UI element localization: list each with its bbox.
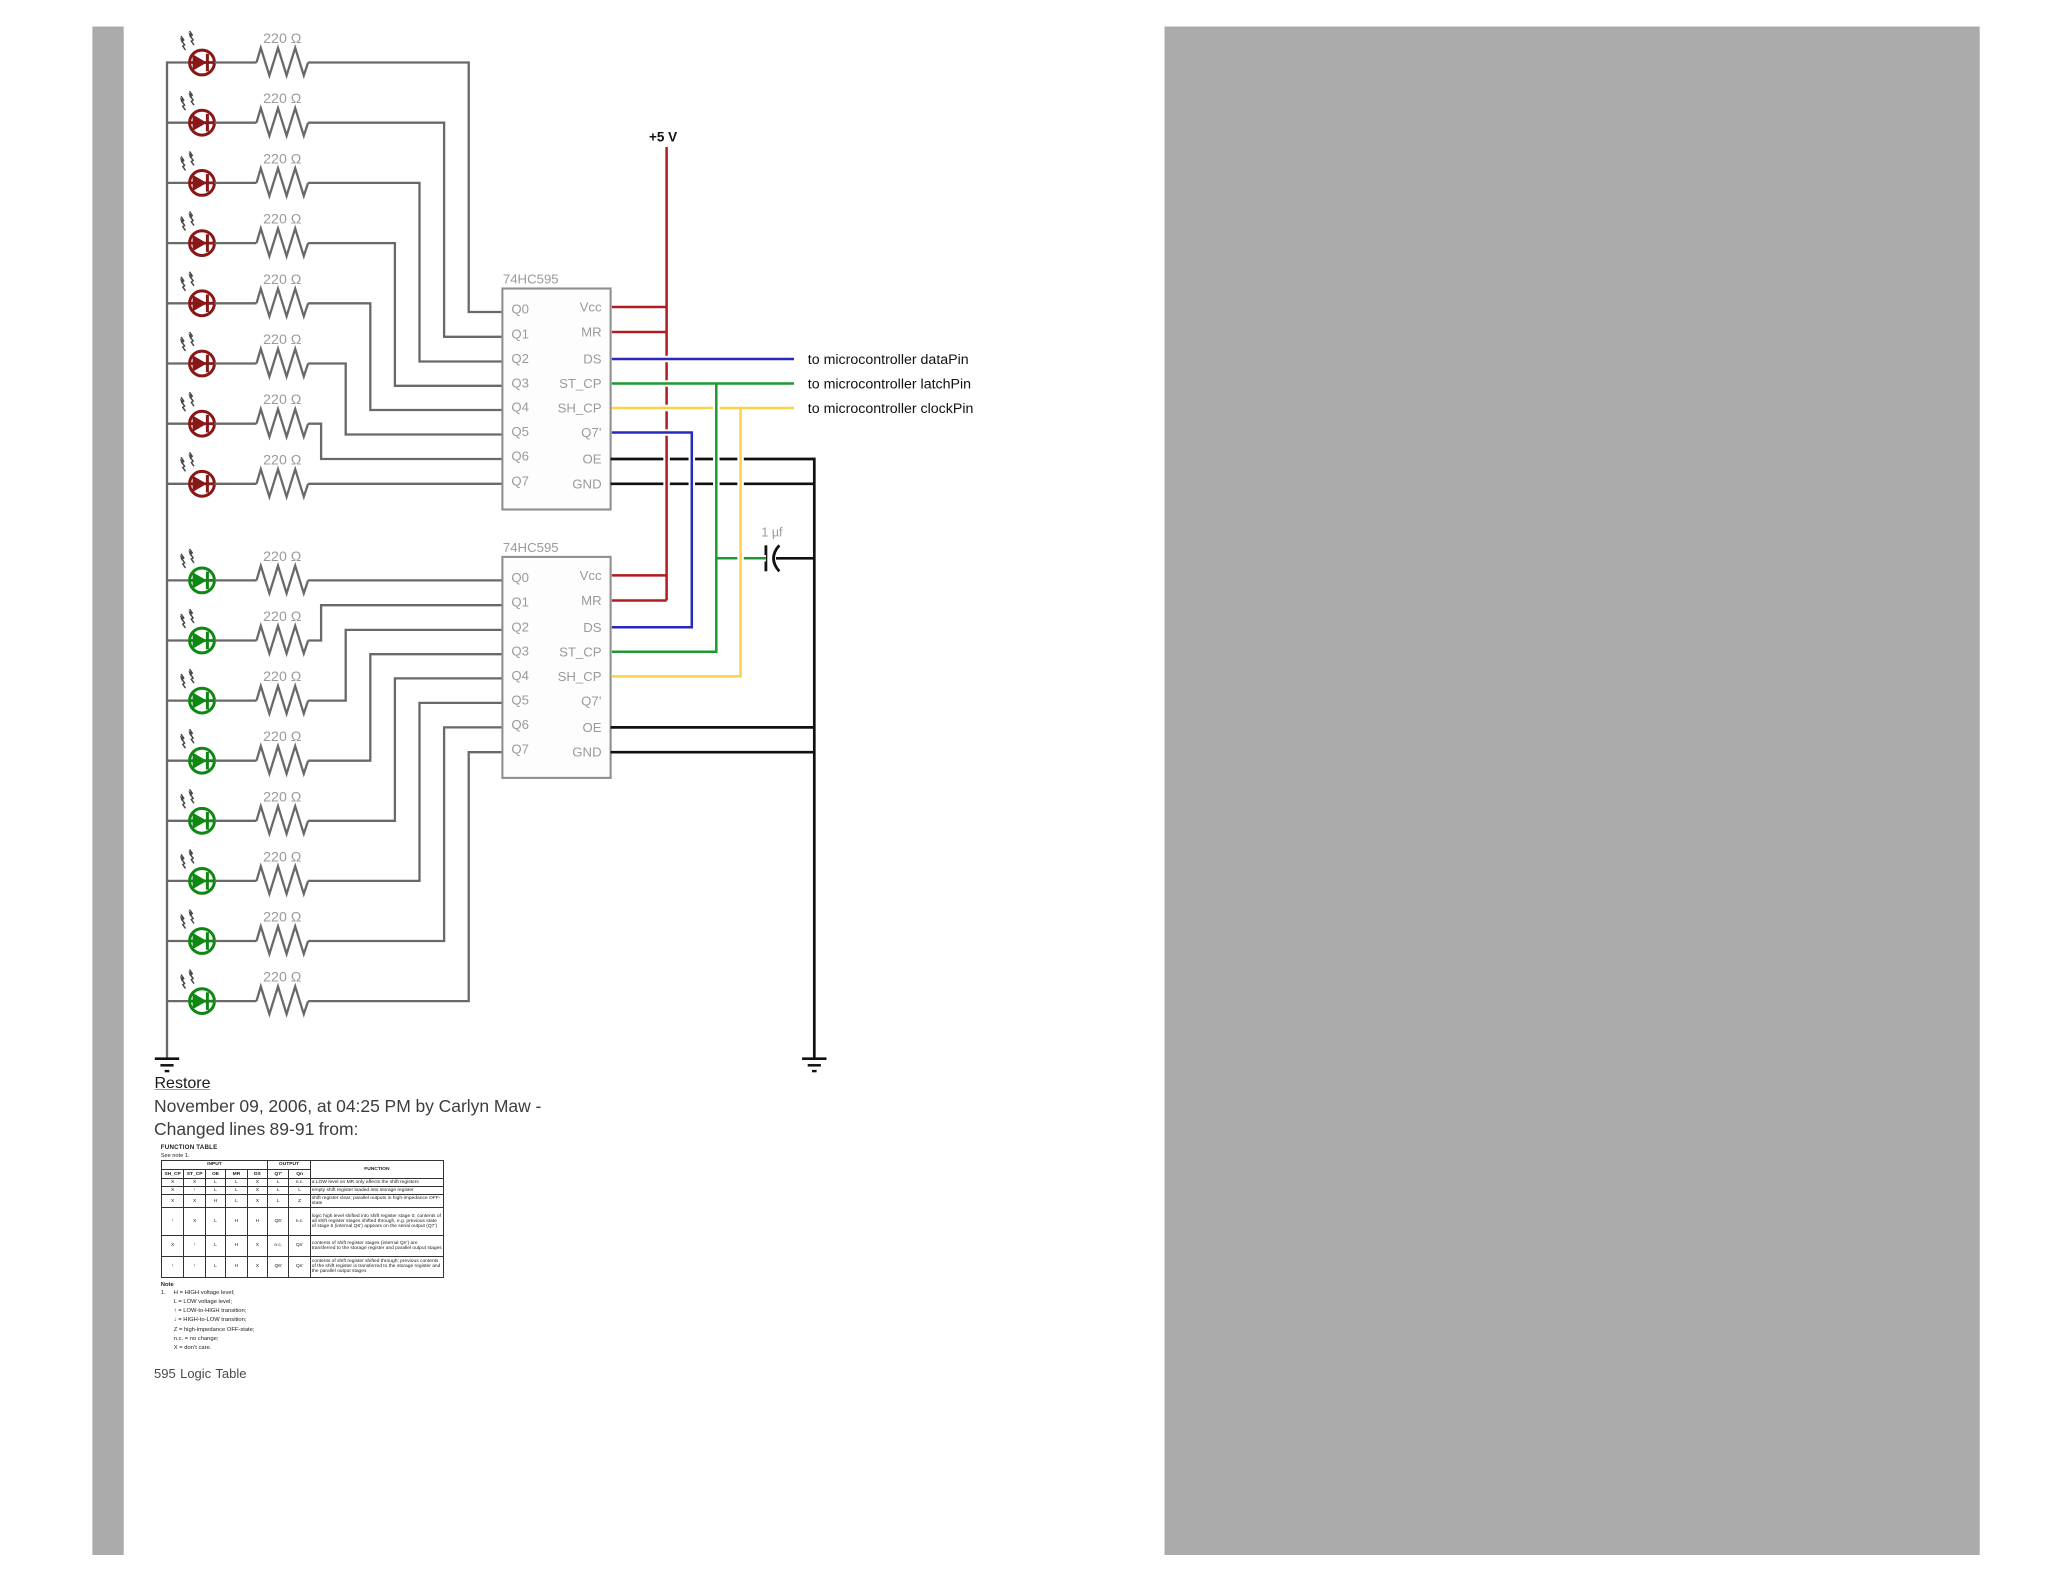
svg-text:220 Ω: 220 Ω	[263, 609, 301, 625]
resistor R12	[257, 746, 309, 774]
LED D9 (green)	[180, 549, 215, 593]
svg-text:220 Ω: 220 Ω	[263, 910, 301, 926]
svg-text:GND: GND	[572, 745, 601, 760]
svg-text:Q0: Q0	[511, 302, 529, 317]
svg-text:Q5: Q5	[511, 424, 529, 439]
wire: R2 to U1 Q1	[308, 123, 502, 337]
svg-text:Q2: Q2	[511, 619, 529, 634]
wire: LED D3 to resistor R3	[214, 182, 256, 184]
LED D3 (red)	[180, 151, 215, 195]
LED D13 (green)	[180, 789, 215, 833]
resistor R14	[257, 866, 309, 894]
resistor R4	[257, 229, 309, 257]
wire: LED D14 to resistor R14	[214, 880, 256, 882]
link: Restore	[155, 1075, 211, 1093]
wire: rail to LED D9	[167, 579, 190, 581]
resistor R8	[257, 469, 309, 497]
svg-text:220 Ω: 220 Ω	[263, 332, 301, 348]
wire: rail to LED D2	[167, 122, 190, 124]
svg-text:Q2: Q2	[511, 351, 529, 366]
resistor R1	[257, 48, 309, 76]
svg-text:Q6: Q6	[511, 717, 529, 732]
wire: R13 to U2 Q4	[308, 678, 502, 820]
resistor R15	[257, 926, 309, 954]
svg-text:220 Ω: 220 Ω	[263, 849, 301, 865]
wire: R3 to U1 Q2	[308, 183, 502, 362]
wire: R15 to U2 Q6	[308, 727, 502, 941]
wire: rail to LED D10	[167, 639, 190, 641]
svg-text:MR: MR	[581, 593, 602, 608]
resistor R9	[257, 566, 309, 594]
wire: R10 to U2 Q1	[308, 605, 502, 640]
wire: rail to LED D7	[167, 423, 190, 425]
wire: ground rail (vertical)	[813, 458, 816, 1058]
wire: rail to LED D13	[167, 820, 190, 822]
svg-text:Q7’: Q7’	[581, 425, 602, 440]
LED D15 (green)	[180, 910, 215, 954]
LED D11 (green)	[180, 669, 215, 713]
wire: C1 to ground rail (black)	[776, 557, 814, 560]
LED D8 (red)	[180, 452, 215, 496]
svg-text:Q1: Q1	[511, 595, 529, 610]
wire: LED D13 to resistor R13	[214, 820, 256, 822]
svg-text:Q7’: Q7’	[581, 694, 602, 709]
svg-text:to microcontroller clockPin: to microcontroller clockPin	[808, 401, 974, 417]
wire: LED D4 to resistor R4	[214, 242, 256, 244]
svg-text:ST_CP: ST_CP	[559, 644, 602, 659]
wire: rail to LED D3	[167, 182, 190, 184]
wire: R11 to U2 Q2	[308, 630, 502, 701]
svg-text:Q3: Q3	[511, 644, 529, 659]
IC U2 74HC595 (shift register)	[502, 540, 610, 778]
LED D10 (green)	[180, 609, 215, 653]
resistor R10	[257, 626, 309, 654]
resistor R2	[257, 108, 309, 136]
wire: LED D12 to resistor R12	[214, 760, 256, 762]
svg-text:220 Ω: 220 Ω	[263, 212, 301, 228]
svg-text:to microcontroller latchPin: to microcontroller latchPin	[808, 377, 971, 393]
svg-text:DS: DS	[583, 620, 602, 635]
wire: rail to LED D5	[167, 302, 190, 304]
text: edit byline	[154, 1096, 541, 1117]
wire: LED D16 to resistor R16	[214, 1000, 256, 1002]
wire: rail to LED D14	[167, 880, 190, 882]
caption: 595 Logic Table	[154, 1366, 246, 1381]
LED D6 (red)	[180, 332, 215, 376]
ground (IC rail)	[802, 1059, 826, 1071]
svg-text:220 Ω: 220 Ω	[263, 31, 301, 47]
wire: U1 SH_CP to microcontroller clockPin (yellow)	[612, 405, 794, 412]
resistor R6	[257, 349, 309, 377]
wire: R5 to U1 Q4	[308, 303, 502, 410]
wire: U1 Q7' to U2 DS (blue cascade)	[612, 433, 692, 628]
svg-text:Q4: Q4	[511, 668, 529, 683]
svg-text:to microcontroller dataPin: to microcontroller dataPin	[808, 352, 969, 368]
wire: U1 OE to ground rail	[611, 458, 815, 461]
wire: LED D2 to resistor R2	[214, 122, 256, 124]
wire: R7 to U1 Q6	[308, 424, 502, 459]
svg-text:+5 V: +5 V	[649, 130, 677, 145]
svg-text:220 Ω: 220 Ω	[263, 392, 301, 408]
svg-text:MR: MR	[581, 325, 602, 340]
LED D1 (red)	[180, 31, 215, 75]
LED D12 (green)	[180, 729, 215, 773]
wire: R14 to U2 Q5	[308, 703, 502, 881]
svg-text:220 Ω: 220 Ω	[263, 452, 301, 468]
wire: LED D6 to resistor R6	[214, 362, 256, 364]
svg-text:Vcc: Vcc	[580, 568, 602, 583]
wire: LED D9 to resistor R9	[214, 579, 256, 581]
wire: rail to LED D1	[167, 61, 190, 63]
svg-text:ST_CP: ST_CP	[559, 376, 602, 391]
wire: U1 DS to microcontroller dataPin (blue)	[612, 356, 794, 363]
LED D14 (green)	[180, 849, 215, 893]
svg-text:Q4: Q4	[511, 400, 529, 415]
wire: latch net vertical to U2 ST_CP (green)	[612, 384, 717, 652]
wire: U2 OE to ground rail	[611, 726, 815, 729]
wire: LED D5 to resistor R5	[214, 302, 256, 304]
wire: R16 to U2 Q7	[308, 752, 502, 1001]
svg-text:DS: DS	[583, 352, 602, 367]
wire: LED D11 to resistor R11	[214, 699, 256, 701]
svg-text:220 Ω: 220 Ω	[263, 789, 301, 805]
svg-text:OE: OE	[583, 452, 602, 467]
resistor R11	[257, 686, 309, 714]
svg-text:GND: GND	[572, 476, 601, 491]
wire: LED D10 to resistor R10	[214, 639, 256, 641]
wire: U1 ST_CP to microcontroller latchPin (green)	[612, 380, 794, 387]
svg-text:Q1: Q1	[511, 326, 529, 341]
svg-text:OE: OE	[583, 720, 602, 735]
wire: rail to LED D4	[167, 242, 190, 244]
wire: LED D8 to resistor R8	[214, 483, 256, 485]
wire: LED D7 to resistor R7	[214, 423, 256, 425]
LED D2 (red)	[180, 91, 215, 135]
wire: R1 to U1 Q0	[308, 63, 502, 313]
IC U1 74HC595 (shift register)	[502, 272, 610, 510]
wire: LED D15 to resistor R15	[214, 940, 256, 942]
net +5V (red wires)	[612, 147, 667, 601]
resistor R3	[257, 168, 309, 196]
svg-text:220 Ω: 220 Ω	[263, 669, 301, 685]
svg-text:1 µf: 1 µf	[761, 526, 783, 540]
svg-text:220 Ω: 220 Ω	[263, 729, 301, 745]
wire: rail to LED D15	[167, 940, 190, 942]
svg-text:220 Ω: 220 Ω	[263, 549, 301, 565]
svg-text:220 Ω: 220 Ω	[263, 970, 301, 986]
svg-text:220 Ω: 220 Ω	[263, 272, 301, 288]
ground (LED rail)	[155, 1059, 179, 1071]
LED D4 (red)	[180, 212, 215, 256]
LED D5 (red)	[180, 272, 215, 316]
svg-text:220 Ω: 220 Ω	[263, 91, 301, 107]
wire: R6 to U1 Q5	[308, 364, 502, 435]
wire: clock net vertical to U2 SH_CP (yellow)	[612, 408, 741, 676]
wire: rail to LED D12	[167, 760, 190, 762]
svg-text:220 Ω: 220 Ω	[263, 151, 301, 167]
resistor R16	[257, 987, 309, 1015]
wire: R9 to U2 Q0	[308, 579, 502, 581]
wire: R8 to U1 Q7	[308, 483, 502, 485]
svg-text:SH_CP: SH_CP	[558, 401, 602, 416]
wire: rail to LED D8	[167, 483, 190, 485]
wire: U2 GND to ground rail	[611, 751, 815, 754]
svg-text:Q7: Q7	[511, 742, 529, 757]
wire: rail to LED D16	[167, 1000, 190, 1002]
resistor R7	[257, 409, 309, 437]
wire: LED D1 to resistor R1	[214, 61, 256, 63]
wire: LED common rail (vertical, to ground)	[166, 61, 168, 1057]
datasheet image: 74HC595 function table	[161, 1144, 461, 1354]
wire: U1 GND to ground rail	[611, 482, 815, 485]
svg-text:SH_CP: SH_CP	[558, 669, 602, 684]
svg-text:74HC595: 74HC595	[503, 272, 559, 287]
text: changed lines	[154, 1119, 358, 1140]
wire: latch net to capacitor C1 (green)	[716, 555, 766, 562]
wire: rail to LED D6	[167, 362, 190, 364]
capacitor C1 (1 µf)	[766, 545, 779, 571]
svg-text:Q3: Q3	[511, 375, 529, 390]
svg-text:Q5: Q5	[511, 692, 529, 707]
resistor R5	[257, 289, 309, 317]
svg-text:Q7: Q7	[511, 473, 529, 488]
svg-text:Q0: Q0	[511, 570, 529, 585]
LED D16 (green)	[180, 970, 215, 1014]
wire: rail to LED D11	[167, 699, 190, 701]
LED D7 (red)	[180, 392, 215, 436]
wire: R4 to U1 Q3	[308, 243, 502, 386]
wire: R12 to U2 Q3	[308, 654, 502, 761]
resistor R13	[257, 806, 309, 834]
svg-text:74HC595: 74HC595	[503, 540, 559, 555]
svg-text:Vcc: Vcc	[580, 300, 602, 315]
svg-text:Q6: Q6	[511, 449, 529, 464]
